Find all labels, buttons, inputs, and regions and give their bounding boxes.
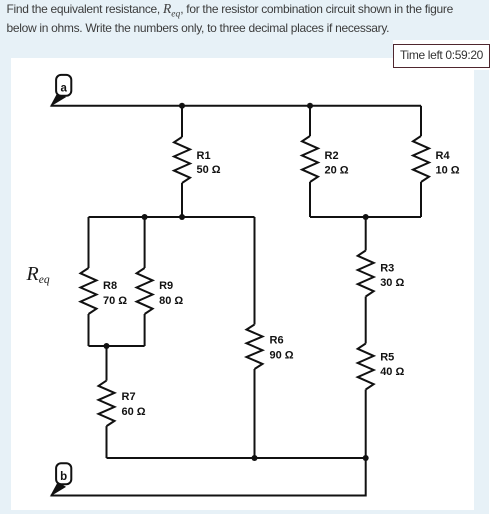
svg-text:60 Ω: 60 Ω: [122, 406, 146, 418]
svg-text:R4: R4: [436, 150, 451, 162]
svg-text:90 Ω: 90 Ω: [270, 350, 294, 362]
svg-text:20 Ω: 20 Ω: [325, 165, 349, 177]
svg-text:40 Ω: 40 Ω: [380, 366, 404, 378]
svg-text:R6: R6: [270, 335, 284, 347]
svg-text:R7: R7: [122, 391, 136, 403]
svg-text:a: a: [60, 83, 67, 95]
svg-text:R5: R5: [380, 352, 394, 364]
svg-text:50 Ω: 50 Ω: [197, 164, 221, 176]
svg-text:R8: R8: [103, 280, 117, 292]
svg-text:R2: R2: [325, 150, 339, 162]
svg-text:b: b: [60, 471, 67, 483]
svg-text:R3: R3: [380, 263, 394, 275]
svg-text:30 Ω: 30 Ω: [380, 277, 404, 289]
svg-text:R1: R1: [197, 150, 211, 162]
svg-text:Req: Req: [26, 263, 50, 286]
svg-text:70 Ω: 70 Ω: [103, 295, 127, 307]
svg-text:80 Ω: 80 Ω: [159, 295, 183, 307]
svg-text:R9: R9: [159, 280, 173, 292]
svg-text:10 Ω: 10 Ω: [436, 165, 460, 177]
